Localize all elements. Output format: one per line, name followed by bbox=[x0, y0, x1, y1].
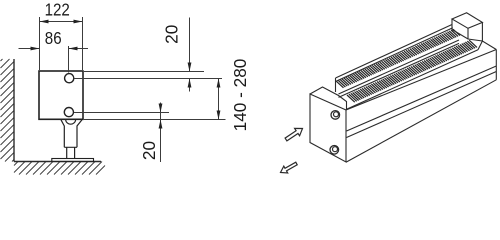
dim 20 top bbox=[189, 18, 191, 92]
svg-text:20: 20 bbox=[162, 25, 182, 44]
svg-text:20: 20 bbox=[139, 141, 159, 160]
dim 122 line bbox=[40, 21, 83, 23]
dim 86 line bbox=[19, 48, 89, 50]
wall hatch bbox=[1, 59, 15, 162]
dim 122 extension lines bbox=[40, 17, 83, 70]
pedestal foot bbox=[66, 120, 76, 124]
iso: front rim edge bbox=[346, 50, 478, 110]
iso: fin pack lower row bbox=[347, 40, 477, 102]
convector body (side view rectangle) bbox=[39, 71, 83, 119]
svg-text:140 - 280: 140 - 280 bbox=[230, 59, 250, 132]
dim 140-280 bbox=[218, 79, 220, 120]
iso: fin pack top row bbox=[337, 29, 461, 88]
floor hatch bbox=[14, 162, 105, 175]
dim 86 label bbox=[45, 29, 62, 48]
iso: back rim bbox=[336, 25, 453, 93]
iso: pipe stub top bbox=[331, 111, 340, 120]
svg-text:122: 122 bbox=[45, 0, 70, 19]
extension line top pipe right bbox=[75, 78, 223, 80]
dim 140-280 label bbox=[230, 59, 250, 132]
iso: middle rails bbox=[339, 40, 460, 97]
dim 122 label bbox=[45, 0, 70, 19]
iso: right end edge bbox=[495, 50, 497, 80]
svg-text:86: 86 bbox=[45, 29, 62, 48]
floor line bbox=[14, 161, 101, 163]
foot base plate bbox=[52, 159, 94, 162]
pipe connection hole top bbox=[65, 74, 74, 83]
airflow arrow out bbox=[285, 128, 302, 141]
iso: casing side face bbox=[346, 50, 496, 111]
wall face line bbox=[13, 59, 15, 162]
extension line bottom edge right bbox=[84, 119, 226, 121]
iso: front end cap face bbox=[310, 94, 346, 162]
pipe connection hole bottom bbox=[64, 108, 73, 117]
dim 20 bottom label bbox=[139, 141, 159, 160]
iso: tray end closing bbox=[478, 41, 482, 50]
dim 20 bottom bbox=[160, 103, 162, 163]
dim 86 extension line bbox=[68, 46, 70, 73]
iso: back end cap edges bbox=[452, 19, 482, 41]
iso: pipe stub bottom bbox=[330, 146, 339, 155]
dim 20 top label bbox=[162, 25, 182, 44]
extension line bottom pipe right bbox=[74, 112, 169, 114]
iso: front cap top face bbox=[310, 87, 347, 110]
iso: back end cap top face bbox=[452, 13, 482, 28]
extension line top edge right bbox=[84, 71, 204, 73]
airflow arrow in bbox=[281, 162, 298, 173]
